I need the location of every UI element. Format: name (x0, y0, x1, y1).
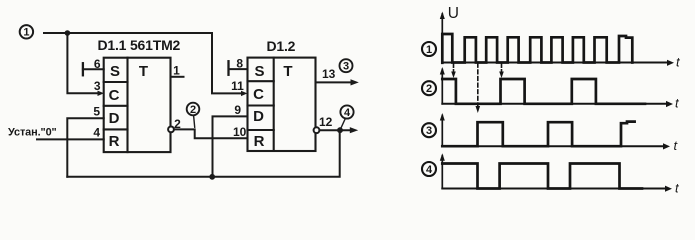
axis U row2 (441, 70, 443, 104)
svg-text:1: 1 (426, 44, 432, 56)
node 2 tag timing (422, 81, 436, 95)
svg-text:R: R (254, 133, 265, 150)
svg-text:9: 9 (234, 103, 241, 117)
arrow output 4 (350, 127, 358, 133)
wire D1 feedback (67, 118, 103, 177)
waveform row3 (442, 122, 634, 147)
dashed edge arrow a (453, 64, 455, 72)
svg-text:D: D (109, 110, 120, 127)
svg-text:5: 5 (93, 104, 100, 118)
svg-text:1: 1 (173, 64, 180, 78)
axis U row4 (441, 156, 443, 189)
svg-text:T: T (283, 63, 292, 80)
pin 1 output stub (171, 76, 184, 78)
waveform row2 (442, 79, 645, 104)
axis U row3 (441, 116, 443, 147)
svg-text:11: 11 (231, 79, 244, 93)
t axis row2 (442, 103, 667, 105)
svg-text:4: 4 (93, 125, 100, 139)
node 3 tag timing (422, 123, 436, 137)
node 2 tag (187, 103, 200, 128)
svg-text:1: 1 (23, 27, 29, 39)
S1 input terminator bar (82, 63, 84, 75)
S2 input terminator bar (227, 61, 229, 75)
wire Q2 output (316, 81, 354, 83)
svg-text:3: 3 (426, 125, 432, 137)
node 4 tag (340, 105, 353, 127)
junction dot A (65, 30, 71, 36)
flip-flop D1.2 body (248, 58, 316, 151)
D1.1 cell letters (109, 63, 149, 150)
waveform row4 (442, 164, 642, 189)
svg-text:T: T (139, 63, 148, 80)
svg-text:R: R (109, 133, 120, 150)
bottom feedback wire (67, 130, 339, 177)
svg-text:4: 4 (426, 164, 433, 176)
wire to C1 (67, 33, 98, 93)
svg-text:10: 10 (233, 125, 247, 139)
svg-text:2: 2 (190, 104, 196, 116)
wire S1 (83, 68, 104, 70)
wire Q1bar to R2 (174, 129, 248, 138)
pin 2 inversion circle (168, 126, 174, 132)
wire Q2bar output (320, 129, 353, 131)
svg-text:12: 12 (319, 115, 333, 129)
junction dot bottom (209, 174, 215, 180)
svg-text:6: 6 (94, 57, 101, 71)
flip-flop D1.1 body (104, 58, 171, 152)
t axis row4 (442, 188, 666, 190)
D1.2 cell letters (253, 63, 293, 150)
junction dot output 4 (337, 127, 343, 133)
svg-text:3: 3 (94, 79, 101, 93)
svg-text:13: 13 (322, 67, 336, 81)
node 1 input terminal (20, 25, 33, 39)
clock waveform row1 (442, 34, 632, 63)
wire input top (44, 32, 212, 34)
pin 12 inversion circle (314, 127, 320, 133)
dynamic input arrow C1 (98, 91, 105, 96)
svg-text:C: C (109, 87, 120, 104)
svg-text:2: 2 (426, 83, 432, 95)
dynamic input arrow C2 (241, 91, 247, 96)
node 1 tag timing (422, 42, 436, 56)
svg-text:Устан."0": Устан."0" (8, 126, 57, 138)
dashed edge arrow b (501, 64, 503, 72)
svg-text:S: S (254, 63, 264, 80)
svg-text:S: S (110, 63, 120, 80)
svg-text:2: 2 (174, 117, 181, 131)
wire S2 (229, 68, 248, 70)
svg-text:8: 8 (236, 56, 243, 70)
wire clock to C2 (212, 33, 242, 93)
node 4 tag timing (422, 162, 436, 176)
axis U row1 (441, 14, 443, 63)
svg-text:C: C (253, 86, 264, 103)
t axis row1 (442, 62, 668, 64)
svg-text:4: 4 (344, 107, 351, 119)
svg-text:D1.1 561ТМ2: D1.1 561ТМ2 (98, 37, 181, 53)
arrow output 3 (351, 79, 359, 85)
dashed edge line long (477, 64, 479, 108)
svg-text:3: 3 (343, 61, 349, 73)
svg-text:D1.2: D1.2 (267, 38, 296, 54)
wire R1 reset (37, 138, 104, 140)
svg-text:D: D (253, 108, 264, 125)
node 3 tag (340, 59, 353, 72)
svg-text:U: U (448, 5, 459, 22)
t axis row3 (442, 145, 664, 147)
wire D2 from bottom net (213, 116, 248, 176)
